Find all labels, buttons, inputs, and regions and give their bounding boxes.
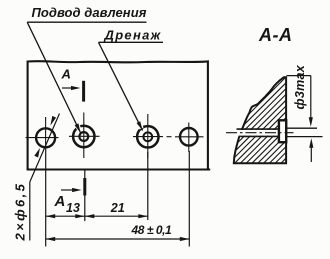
svg-text:Дренаж: Дренаж bbox=[104, 28, 162, 43]
svg-text:48 ± 0,1: 48 ± 0,1 bbox=[131, 223, 172, 237]
svg-text:ф3mах: ф3mах bbox=[293, 64, 307, 109]
svg-text:2×ф6,5: 2×ф6,5 bbox=[12, 182, 27, 242]
svg-text:13: 13 bbox=[66, 201, 80, 215]
svg-text:А-А: А-А bbox=[258, 25, 293, 45]
svg-text:А: А bbox=[61, 67, 71, 82]
svg-text:Подвод давления: Подвод давления bbox=[32, 5, 147, 20]
svg-text:А: А bbox=[54, 193, 66, 210]
svg-text:21: 21 bbox=[110, 201, 125, 215]
